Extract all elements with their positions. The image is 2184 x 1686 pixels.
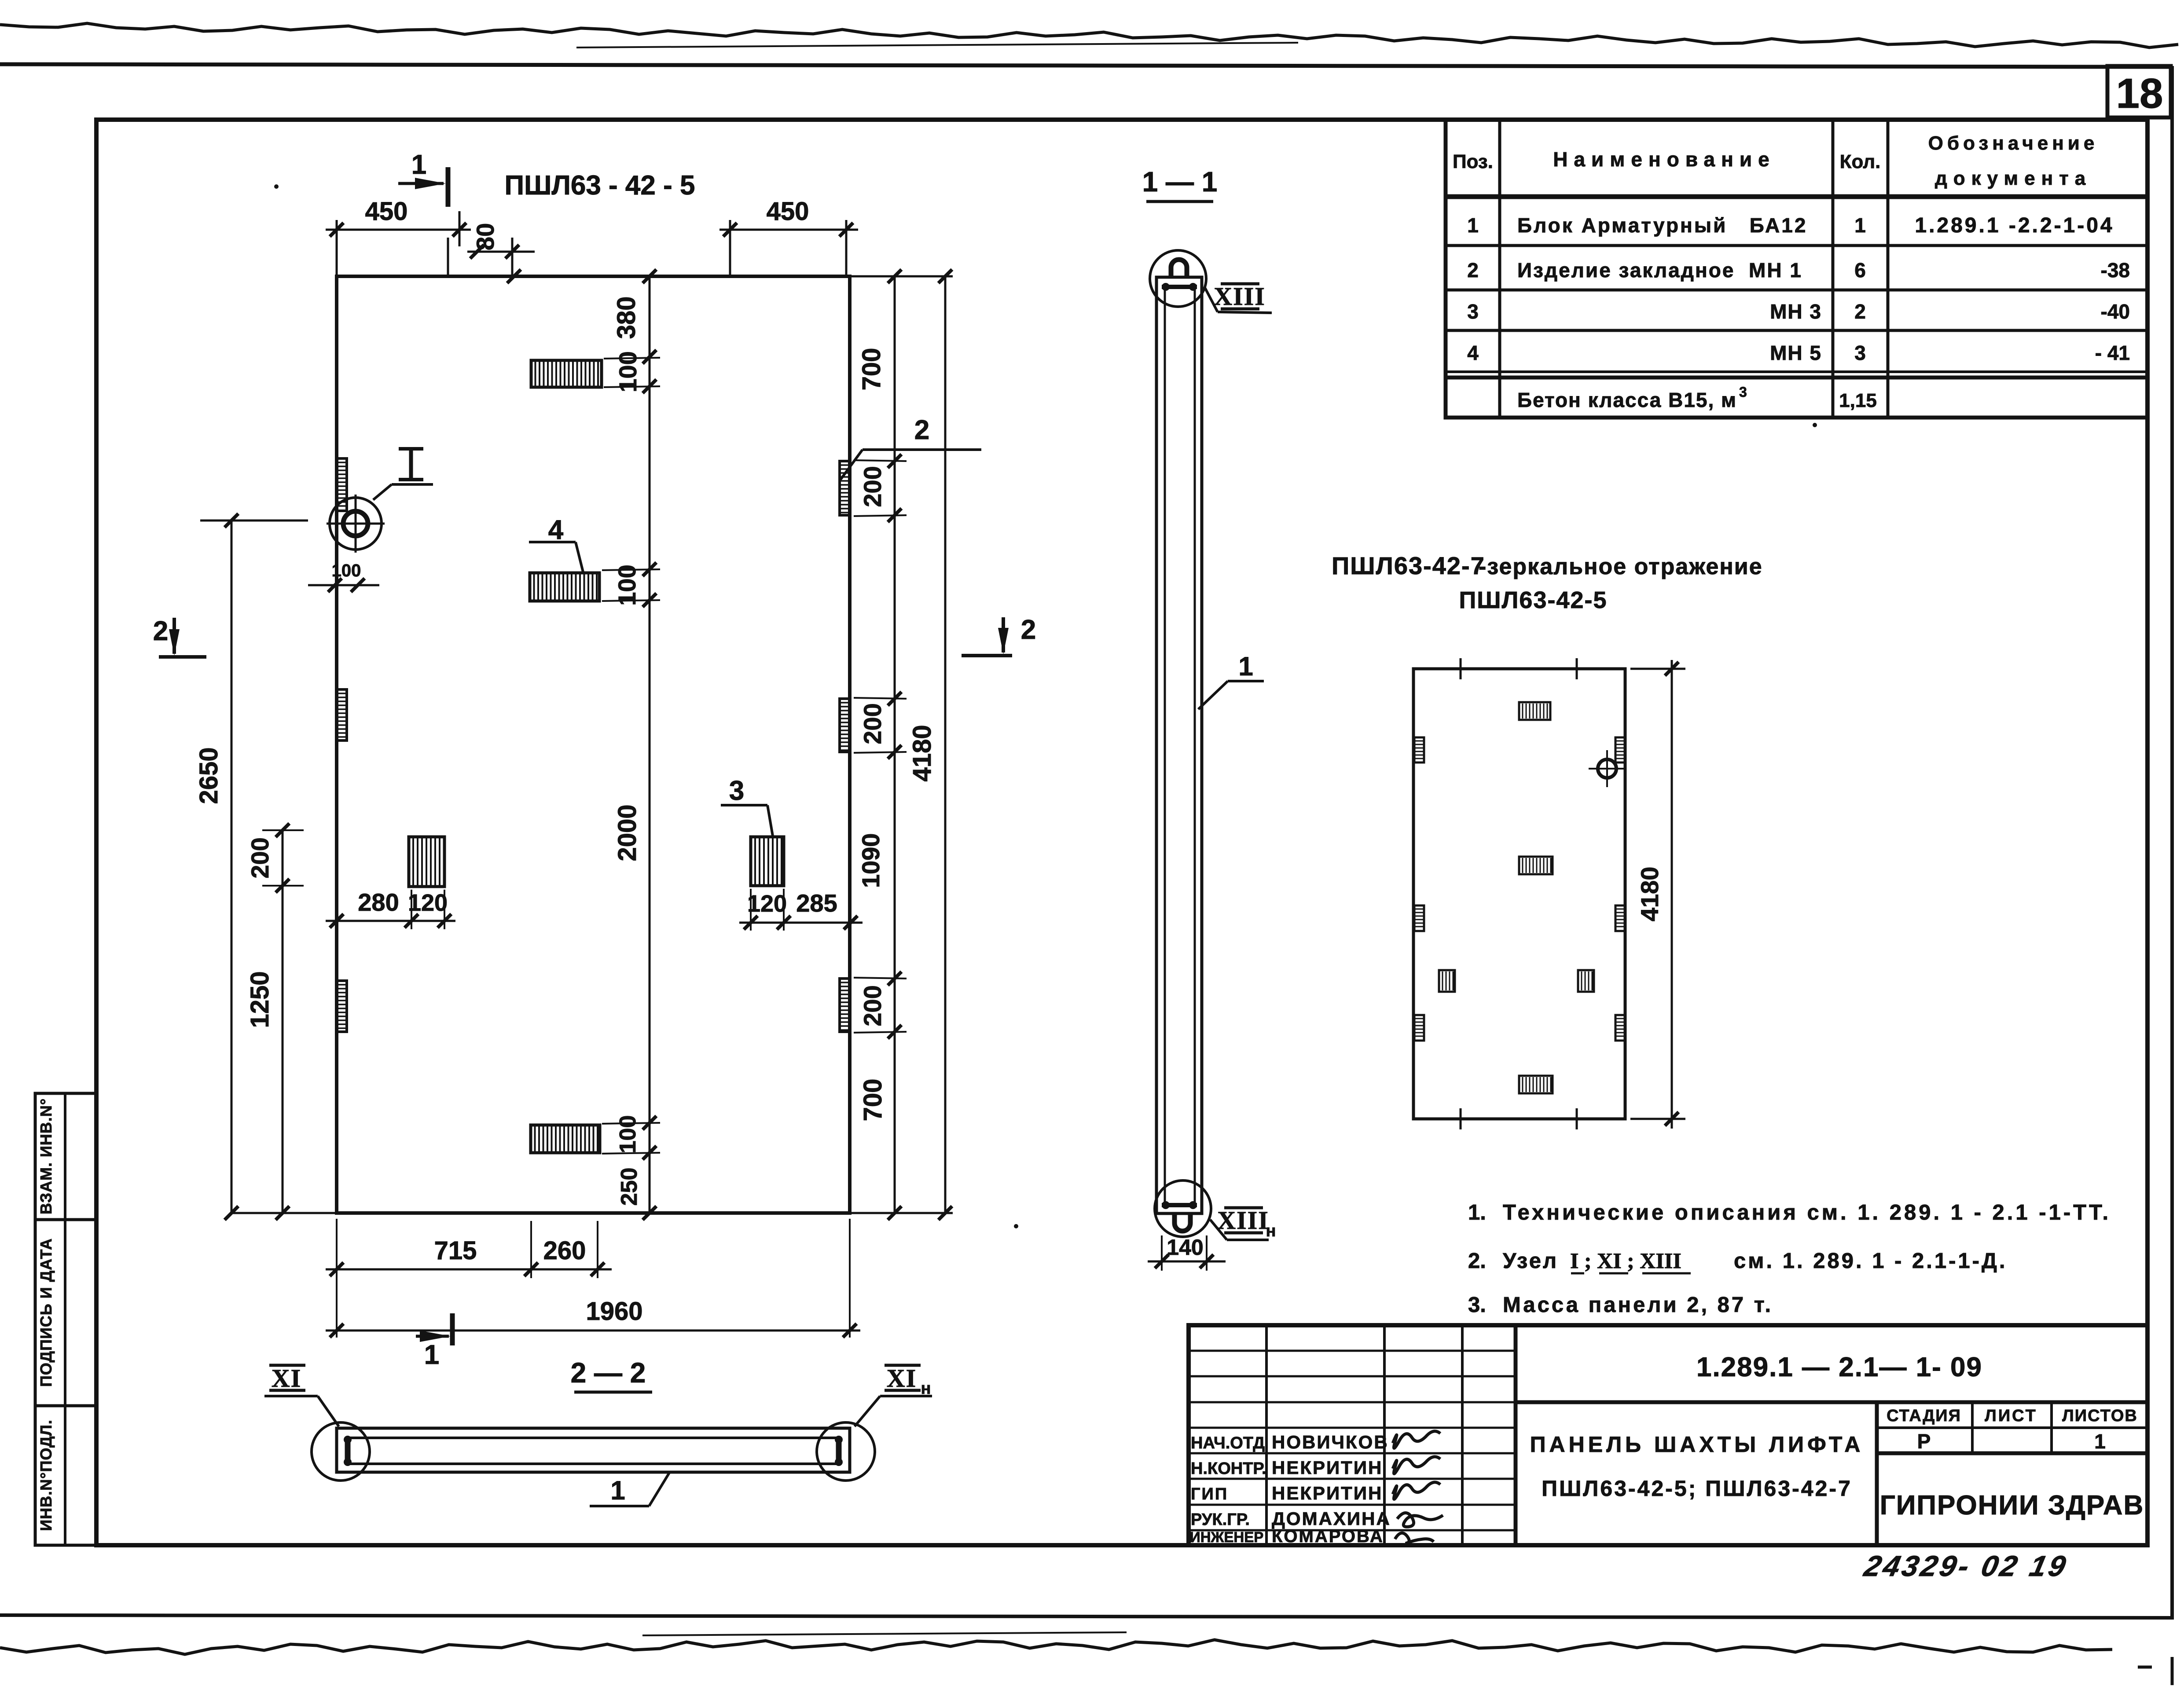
right edge plate MN1 a: [840, 461, 850, 515]
dim 1250 line: [282, 830, 284, 1213]
svg-text:1.: 1.: [1468, 1201, 1486, 1224]
mirror plate mid centre: [1519, 857, 1553, 874]
member 1-1 outline: [1156, 277, 1202, 1213]
svg-text:Бетон класса В15, м: Бетон класса В15, м: [1517, 389, 1737, 411]
svg-text:280: 280: [358, 888, 399, 916]
torn bottom auxiliary line: [642, 1632, 1127, 1635]
svg-text:1: 1: [424, 1340, 439, 1370]
central dim extensions: [604, 358, 660, 359]
dim 2000: [613, 804, 642, 861]
svg-text:1 — 1: 1 — 1: [1142, 166, 1218, 198]
embedded plate top centre (pos 2): [531, 360, 602, 387]
svg-text:2: 2: [1467, 259, 1479, 282]
sidebar box Podpis i data: [35, 1220, 96, 1406]
mirror lifting bolt: [1598, 759, 1616, 778]
svg-text:XI: XI: [272, 1364, 301, 1393]
section cut 1 top mark: [446, 167, 451, 207]
mirror plate right c: [1615, 1015, 1625, 1041]
svg-text:4: 4: [1467, 341, 1479, 364]
table row line 4b: [1446, 376, 2147, 380]
table column line Naimenovanie: [1832, 120, 1835, 418]
bottom right border dashes: [2171, 1657, 2174, 1685]
svg-text:6: 6: [1854, 259, 1866, 282]
embedded plate mid centre (pos 4): [530, 573, 599, 601]
svg-text:18: 18: [2116, 70, 2163, 117]
signature 3: [1393, 1482, 1440, 1499]
svg-text:НЕКРИТИН: НЕКРИТИН: [1272, 1483, 1383, 1503]
svg-text:Р: Р: [1917, 1430, 1931, 1453]
svg-text:120: 120: [408, 890, 448, 916]
left edge plate MN1 a: [336, 458, 347, 511]
right edge plate MN1 b: [840, 699, 850, 752]
svg-text:Обозначение: Обозначение: [1928, 132, 2099, 154]
svg-text:см. 1. 289. 1 - 2.1-1-Д.: см. 1. 289. 1 - 2.1-1-Д.: [1734, 1249, 2008, 1273]
svg-text:-зеркальное отражение: -зеркальное отражение: [1479, 554, 1763, 579]
svg-text:Наименование: Наименование: [1553, 148, 1775, 171]
svg-text:250: 250: [617, 1168, 642, 1206]
svg-text:2.: 2.: [1468, 1249, 1486, 1273]
svg-text:450: 450: [365, 197, 408, 226]
dim 200 b: [859, 703, 886, 744]
title block v name: [1383, 1325, 1386, 1545]
table column line Kol: [1887, 120, 1890, 418]
mirror centering tick top b: [1576, 658, 1578, 679]
embedded plate lower-left (pos 4): [409, 837, 444, 887]
svg-text:-40: -40: [2101, 300, 2130, 323]
svg-text:КОМАРОВА: КОМАРОВА: [1272, 1527, 1384, 1546]
mirror plate left c: [1414, 1015, 1424, 1041]
svg-text:4180: 4180: [908, 725, 936, 781]
dim 250: [617, 1168, 642, 1206]
title block outer: [1189, 1325, 2147, 1545]
svg-text:Кол.: Кол.: [1840, 151, 1881, 172]
svg-text:XI: XI: [887, 1364, 917, 1393]
detail circle XI left: [312, 1422, 370, 1481]
svg-text:2 — 2: 2 — 2: [571, 1357, 646, 1389]
svg-text:I ; XI ; XIII: I ; XI ; XIII: [1570, 1248, 1681, 1273]
svg-text:120: 120: [747, 891, 787, 917]
table header bottom line: [1446, 194, 2147, 199]
dim 100 mid: [613, 564, 641, 605]
lifting hook top: [1171, 260, 1187, 277]
right dim line outer 4180: [944, 276, 947, 1213]
title block h doc number bottom: [1516, 1400, 2147, 1404]
svg-text:2: 2: [1854, 300, 1866, 323]
svg-text:ЛИСТ: ЛИСТ: [1985, 1407, 2037, 1425]
sidebar box Inv No podl: [35, 1406, 96, 1545]
svg-text:1.289.1 — 2.1— 1- 09: 1.289.1 — 2.1— 1- 09: [1696, 1352, 1982, 1382]
dim 700 bottom: [859, 1079, 887, 1122]
page bottom border line: [0, 1615, 2174, 1618]
svg-text:ПШЛ63-42-5; ПШЛ63-42-7: ПШЛ63-42-5; ПШЛ63-42-7: [1542, 1476, 1852, 1501]
svg-text:1: 1: [1854, 214, 1866, 237]
svg-text:СТАДИЯ: СТАДИЯ: [1887, 1407, 1961, 1425]
signature 4: [1397, 1513, 1443, 1527]
mirror dim 4180: [1630, 668, 1685, 670]
detail I roman numeral: [409, 449, 413, 480]
mirror plate square left: [1439, 970, 1455, 992]
slab 2-2 end plate right: [836, 1437, 842, 1465]
sheet number box: [2107, 66, 2171, 117]
mirror centering tick bottom b: [1576, 1108, 1578, 1129]
svg-text:Технические описания см. 1. 2: Технические описания см. 1. 289. 1 - 2.1…: [1503, 1201, 2111, 1224]
sidebar label Inv No podl: [37, 1419, 55, 1531]
svg-text:1: 1: [610, 1476, 625, 1505]
svg-text:285: 285: [796, 889, 837, 917]
svg-text:МН 5: МН 5: [1770, 341, 1822, 364]
svg-text:200: 200: [859, 703, 886, 744]
mirror centering tick top a: [1460, 658, 1462, 679]
svg-text:ПШЛ63-42-7: ПШЛ63-42-7: [1332, 552, 1485, 579]
speck a: [274, 184, 279, 189]
page right border line: [2170, 66, 2174, 1617]
detail XIII top leader: [1204, 287, 1218, 312]
sidebar box Vzam inv No: [35, 1093, 96, 1220]
svg-text:380: 380: [612, 297, 641, 339]
table row line 2: [1446, 289, 2147, 292]
svg-text:3: 3: [729, 776, 744, 806]
svg-text:100: 100: [332, 561, 361, 580]
torn top auxiliary line: [576, 43, 1298, 48]
svg-text:ГИП: ГИП: [1191, 1485, 1228, 1503]
svg-text:140: 140: [1167, 1235, 1203, 1260]
left edge plate MN1 c: [336, 981, 347, 1032]
dim 200 a: [859, 466, 886, 507]
detail circle XI right: [817, 1422, 875, 1481]
title block v sig: [1461, 1325, 1464, 1545]
svg-text:3.: 3.: [1468, 1293, 1486, 1317]
panel bottom extension line: [231, 1212, 953, 1214]
embedded plate lower-right (pos 3): [751, 837, 784, 886]
svg-text:2: 2: [153, 616, 168, 646]
svg-text:- 41: - 41: [2095, 341, 2130, 364]
embedded plate bottom centre: [531, 1125, 600, 1153]
svg-text:РУК.ГР.: РУК.ГР.: [1191, 1510, 1250, 1529]
svg-text:200: 200: [246, 837, 274, 878]
svg-text:ЛИСТОВ: ЛИСТОВ: [2062, 1407, 2138, 1425]
svg-text:ПШЛ63 - 42 - 5: ПШЛ63 - 42 - 5: [505, 170, 695, 201]
member 1-1 top plate: [1162, 285, 1197, 289]
dim 1090: [857, 833, 885, 888]
svg-text:24329- 02 19: 24329- 02 19: [1861, 1550, 2071, 1583]
svg-text:2: 2: [914, 415, 929, 445]
svg-text:ПОДПИСЬ И ДАТА: ПОДПИСЬ И ДАТА: [37, 1238, 55, 1387]
sidebar label Vzam inv No: [37, 1098, 55, 1214]
svg-text:3: 3: [1739, 384, 1747, 400]
dim 200 c: [859, 985, 886, 1026]
svg-text:200: 200: [859, 466, 886, 507]
member 1-1 bottom plate: [1162, 1203, 1197, 1207]
slab 2-2 outline: [337, 1428, 850, 1472]
mirror plate bottom centre: [1519, 1076, 1553, 1093]
svg-text:НОВИЧКОВ: НОВИЧКОВ: [1272, 1432, 1389, 1452]
dim 80: [467, 251, 535, 253]
mirror panel outline: [1413, 669, 1625, 1119]
mirror plate left a: [1414, 737, 1424, 762]
title block v mid-right: [1875, 1402, 1879, 1545]
svg-text:2: 2: [1021, 615, 1036, 645]
dim 140: [1161, 1235, 1163, 1271]
svg-text:Изделие закладное МН 1: Изделие закладное МН 1: [1517, 259, 1802, 282]
svg-text:80: 80: [471, 223, 499, 250]
svg-text:НЕКРИТИН: НЕКРИТИН: [1272, 1457, 1383, 1478]
svg-text:1250: 1250: [246, 971, 274, 1028]
title block h rows left: [1189, 1350, 1516, 1352]
svg-text:1.289.1 -2.2-1-04: 1.289.1 -2.2-1-04: [1915, 214, 2114, 237]
svg-text:Узел: Узел: [1503, 1249, 1558, 1273]
svg-text:450: 450: [767, 197, 809, 226]
section cut 1 bottom mark: [450, 1313, 455, 1345]
svg-text:Блок Арматурный БА12: Блок Арматурный БА12: [1517, 214, 1807, 237]
slab 2-2 inner face lines: [348, 1437, 839, 1439]
svg-text:ИНВ.N°ПОДЛ.: ИНВ.N°ПОДЛ.: [37, 1419, 55, 1531]
svg-text:Поз.: Поз.: [1453, 151, 1493, 172]
lifting hook bottom: [1175, 1213, 1190, 1231]
signature 5: [1395, 1533, 1434, 1543]
detail XIII bottom leader: [1210, 1220, 1227, 1240]
dim 700 top: [857, 348, 886, 391]
page top border line: [0, 64, 2172, 67]
title block h gipronii top: [1877, 1451, 2147, 1455]
svg-text:НАЧ.ОТД: НАЧ.ОТД: [1191, 1434, 1265, 1452]
speck b: [1014, 1224, 1018, 1228]
svg-text:200: 200: [859, 985, 886, 1026]
panel outline: [337, 276, 850, 1213]
speck c: [1813, 423, 1817, 427]
handwritten archive number: [1861, 1550, 2071, 1583]
dim 450 right: [719, 229, 858, 231]
svg-text:Масса панели 2, 87 т.: Масса панели 2, 87 т.: [1503, 1293, 1773, 1317]
table outer border: [1446, 120, 2147, 418]
svg-text:260: 260: [543, 1236, 586, 1265]
svg-text:100: 100: [615, 1115, 641, 1154]
mirror plate right a: [1615, 737, 1625, 762]
svg-text:ПШЛ63-42-5: ПШЛ63-42-5: [1459, 587, 1607, 613]
svg-text:1,15: 1,15: [1839, 390, 1877, 411]
title block h stadia row: [1877, 1426, 2147, 1429]
svg-text:700: 700: [857, 348, 886, 391]
member 1-1 inner lines: [1164, 288, 1166, 1204]
svg-text:-38: -38: [2101, 259, 2130, 282]
svg-text:XIII: XIII: [1214, 282, 1266, 311]
svg-text:ВЗАМ. ИНВ.N°: ВЗАМ. ИНВ.N°: [37, 1098, 55, 1214]
right dim extensions: [854, 460, 907, 461]
dim 280 120: [326, 920, 455, 922]
right dim line inner: [894, 276, 896, 1213]
svg-text:3: 3: [1467, 300, 1479, 323]
mirror plate right b: [1615, 905, 1625, 931]
mirror plate square right: [1578, 970, 1594, 992]
svg-text:ГИПРОНИИ ЗДРАВ: ГИПРОНИИ ЗДРАВ: [1880, 1490, 2144, 1521]
svg-text:2000: 2000: [613, 804, 642, 861]
note 2 underlines: [1571, 1272, 1584, 1275]
right edge plate MN1 c: [840, 979, 850, 1032]
torn paper top edge: [0, 23, 2178, 48]
dim 100 at lifting bolt: [308, 584, 379, 586]
table row line 1: [1446, 244, 2147, 247]
mirror plate top centre: [1519, 702, 1550, 720]
svg-text:700: 700: [859, 1079, 887, 1122]
detail circle XIII top: [1150, 250, 1206, 307]
central dim line: [649, 276, 651, 1213]
lifting loop circle detail I: [330, 498, 382, 550]
dim 100 top: [614, 351, 642, 392]
dim 120 285: [739, 922, 863, 924]
title block v role: [1265, 1325, 1268, 1545]
table column line Poz: [1498, 120, 1501, 418]
svg-text:2650: 2650: [195, 747, 223, 804]
svg-text:1: 1: [1467, 214, 1479, 237]
svg-text:ИНЖЕНЕР: ИНЖЕНЕР: [1190, 1529, 1263, 1545]
svg-text:4180: 4180: [1636, 867, 1663, 922]
dim 100 bottom: [615, 1115, 641, 1154]
left edge plate MN1 b: [336, 689, 347, 740]
svg-text:XIII: XIII: [1217, 1206, 1269, 1235]
mirror plate left b: [1414, 905, 1424, 931]
sidebar label Podpis i data: [37, 1238, 55, 1387]
dim 715 260: [326, 1268, 612, 1271]
svg-text:1: 1: [1238, 652, 1253, 681]
signature 2: [1393, 1457, 1440, 1474]
dim 2650: [231, 520, 233, 1213]
panel top extension line: [850, 275, 953, 278]
signature 1: [1393, 1431, 1440, 1448]
title block v list: [2050, 1402, 2053, 1453]
svg-text:1090: 1090: [857, 833, 885, 888]
svg-text:ПАНЕЛЬ ШАХТЫ ЛИФТА: ПАНЕЛЬ ШАХТЫ ЛИФТА: [1530, 1432, 1864, 1457]
inner drawing frame: [96, 120, 2147, 1545]
svg-text:1: 1: [2094, 1430, 2106, 1453]
detail circle XIII bottom: [1155, 1180, 1211, 1237]
title block v left-main: [1514, 1325, 1518, 1545]
dim 380: [612, 297, 641, 339]
mirror centering tick bottom a: [1460, 1108, 1462, 1129]
svg-text:715: 715: [434, 1236, 477, 1265]
torn paper bottom edge: [0, 1640, 2112, 1654]
svg-text:1960: 1960: [586, 1297, 642, 1326]
detail I leader: [373, 484, 392, 500]
svg-text:МН 3: МН 3: [1770, 300, 1822, 323]
dim 450 left: [326, 229, 471, 231]
slab 2-2 end plate left: [345, 1437, 351, 1465]
title block v stadia: [1971, 1402, 1974, 1453]
table row line 4: [1446, 370, 2147, 373]
dim 1960: [326, 1330, 860, 1332]
svg-text:н: н: [1266, 1222, 1276, 1240]
svg-text:Н.КОНТР.: Н.КОНТР.: [1191, 1459, 1266, 1478]
svg-text:ДОМАХИНА: ДОМАХИНА: [1272, 1508, 1391, 1529]
svg-text:документа: документа: [1935, 168, 2092, 189]
table row line 3: [1446, 329, 2147, 332]
svg-text:4: 4: [548, 515, 564, 545]
svg-text:3: 3: [1854, 341, 1866, 364]
svg-text:1: 1: [411, 150, 426, 180]
